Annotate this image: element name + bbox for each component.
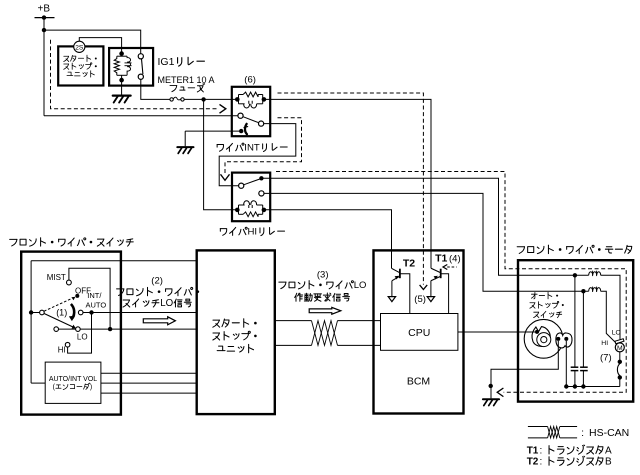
svg-text:HS-CAN: HS-CAN (589, 427, 629, 439)
front wiper switch box (21, 252, 121, 415)
labels LO HI (7) (600, 330, 621, 364)
contact LO pair (54, 327, 80, 332)
hollow signal arrow (2) (143, 317, 175, 325)
legend T2 transistor B (527, 456, 612, 467)
svg-text:INT: INT (244, 142, 260, 153)
circuit breaker (7) (617, 352, 622, 387)
label INT/AUTO (86, 291, 107, 309)
svg-text:B: B (605, 457, 612, 468)
relay wiper-HI box (232, 173, 270, 222)
svg-text:AUTO: AUTO (86, 300, 107, 309)
wire auto-stop contact to bus (565, 341, 567, 387)
relay IG1 coil with resistor (114, 51, 131, 82)
svg-text:INT/: INT/ (87, 291, 102, 300)
auto-stop switch label (530, 292, 564, 317)
relay wiper-INT switch contacts (238, 113, 264, 134)
svg-text::: : (581, 427, 584, 439)
label LO (77, 333, 88, 342)
T1 emitter out arrow (427, 297, 434, 302)
contact HI (65, 342, 70, 347)
transistor T2 (392, 268, 400, 296)
wire +B vertical feed (42, 18, 46, 116)
svg-text:LO: LO (354, 280, 367, 291)
auto-stop switch mechanism (524, 319, 563, 358)
switch pivot contact (40, 310, 45, 315)
wire auto-stop to ground (489, 341, 559, 399)
contact INT/AUTO (78, 310, 83, 315)
relay wiper-HI switch contacts (239, 176, 264, 196)
wire +B to IG1 relay contact (44, 30, 141, 53)
svg-text:LO: LO (160, 298, 173, 309)
svg-text:LO: LO (77, 333, 88, 342)
svg-text:HI: HI (248, 227, 258, 238)
T2 emitter out arrow (388, 297, 395, 302)
svg-text:METER1 10 A: METER1 10 A (158, 75, 215, 85)
wire INT/AUTO to HI contact (68, 313, 92, 354)
dashed current-flow INT coil to T1 (5) (278, 93, 428, 290)
node junctions on motor feed lines (573, 273, 586, 293)
label wiper HI relay (220, 227, 284, 238)
wire T2 base to CPU (400, 274, 410, 314)
svg-text:T1: T1 (435, 252, 447, 264)
svg-text:HI: HI (58, 346, 66, 355)
label (2) front wiper switch LO signal (117, 276, 200, 309)
CPU box (381, 314, 458, 351)
label (3) front wiper LO request signal (279, 269, 367, 301)
ground (INT relay common) (177, 147, 193, 153)
svg-text:HI: HI (601, 340, 608, 347)
wire INT/AUTO output (83, 310, 197, 314)
wire INT relay coil to transistor T1 collector (264, 99, 431, 268)
svg-text:T2: T2 (527, 457, 539, 468)
legend T1 transistor A (527, 445, 612, 456)
svg-text:A: A (605, 445, 612, 456)
svg-text:(3): (3) (317, 269, 329, 280)
svg-text:AUTO/INT VOL: AUTO/INT VOL (49, 376, 97, 383)
motor noise coil HI (589, 287, 601, 292)
wire HI relay coil to transistor T2 collector (264, 210, 392, 269)
label wiper INT relay (217, 142, 287, 153)
ground (wiper motor) (483, 399, 499, 405)
contact MIST (67, 268, 111, 329)
auto-stop cam contact node (518, 330, 539, 334)
motor noise coil LO (589, 271, 601, 276)
svg-text:+B: +B (38, 4, 51, 15)
wire fuse junction down to HI relay coil (204, 99, 238, 209)
battery +B terminal (35, 4, 55, 20)
label BCM (407, 376, 430, 388)
label T1 (4) (435, 252, 461, 264)
svg-text:M: M (617, 345, 623, 352)
wire T1 base to CPU (441, 274, 449, 314)
legend HS-CAN symbol (528, 427, 629, 440)
dashed current-flow INT relay to HI relay (221, 118, 302, 181)
wire switch common bus (29, 261, 197, 383)
start-stop unit (main) box (197, 250, 275, 414)
fuse METER1 10A (170, 97, 184, 101)
wire HS-CAN twisted pair to CPU (275, 321, 381, 346)
svg-text:LO: LO (612, 330, 621, 337)
relay wiper-INT box (232, 87, 270, 136)
capacitor C2 (580, 291, 588, 386)
motor internal ground bus (564, 384, 620, 388)
svg-text:(6): (6) (244, 75, 256, 86)
svg-text:CPU: CPU (408, 327, 430, 339)
wire fuse to INT relay coil, node junction (184, 97, 237, 101)
wire LO output (80, 327, 197, 331)
svg-text:(1): (1) (56, 308, 67, 318)
label (5) (414, 294, 426, 305)
wire INT relay common to ground (185, 131, 239, 146)
capacitor C1 (571, 275, 579, 386)
svg-text:BCM: BCM (407, 376, 430, 388)
AUTO/INT VOL encoder box (45, 362, 101, 403)
svg-text::: : (540, 445, 543, 456)
relay IG1 box (109, 48, 153, 86)
label IG1 relay (158, 56, 205, 68)
label front wiper motor (517, 245, 632, 253)
front wiper motor box (518, 260, 633, 401)
svg-text:T2: T2 (403, 258, 415, 270)
label MIST (47, 273, 66, 282)
label front wiper switch (10, 238, 134, 246)
svg-text:(5): (5) (414, 294, 426, 305)
ground (IG1 relay coil) (113, 80, 131, 102)
BCM box (374, 250, 464, 413)
svg-text:(2): (2) (151, 276, 163, 287)
svg-text:(7): (7) (600, 353, 612, 364)
wire HI relay NC contact to motor LO coil (261, 178, 620, 339)
wire +B to wiper INT relay NC contact (44, 115, 238, 117)
wire HI relay NO contact to motor HI coil (264, 193, 615, 342)
label (1) (56, 308, 67, 318)
wire CPU to auto-stop switch (458, 331, 535, 333)
rotation arrow (1) (69, 304, 75, 321)
relay wiper-INT coil with resistor (235, 92, 266, 108)
label T2 (403, 258, 415, 270)
svg-text:(4): (4) (449, 253, 461, 264)
dashed current-flow path +B to INT relay (51, 40, 226, 113)
label (6) (244, 75, 256, 86)
svg-text::: : (540, 457, 543, 468)
label HI (58, 346, 66, 355)
svg-text:2S: 2S (75, 44, 84, 51)
transistor T1 (431, 268, 441, 296)
contact OFF position dot + dashed arm (44, 294, 79, 311)
relay wiper-HI coil with resistor (235, 201, 266, 217)
start-stop unit (top) box (58, 46, 103, 85)
hollow signal arrow (3) (309, 307, 341, 314)
label OFF (75, 286, 91, 295)
wires encoder outputs (101, 373, 197, 393)
auto-stop moving contact block (556, 333, 572, 348)
switch arm to LO (44, 314, 76, 329)
svg-text:IG1: IG1 (158, 56, 175, 68)
dashed current-flow HI relay to motor and ground (276, 172, 626, 397)
motor M with brushes (615, 339, 624, 352)
dashed arrow (4) at T1 (443, 265, 457, 270)
wire IG1 contact to fuse (141, 79, 170, 99)
svg-text:): ) (90, 384, 92, 391)
relay IG1 contact (138, 54, 143, 80)
node 2S connector (74, 41, 85, 52)
wire INT relay NO contact to HI relay common (219, 124, 296, 186)
svg-text:T1: T1 (527, 445, 539, 456)
label METER1 10A fuse (158, 75, 215, 92)
wire 2S to IG1 relay coil (79, 38, 121, 54)
svg-text:MIST: MIST (47, 273, 66, 282)
